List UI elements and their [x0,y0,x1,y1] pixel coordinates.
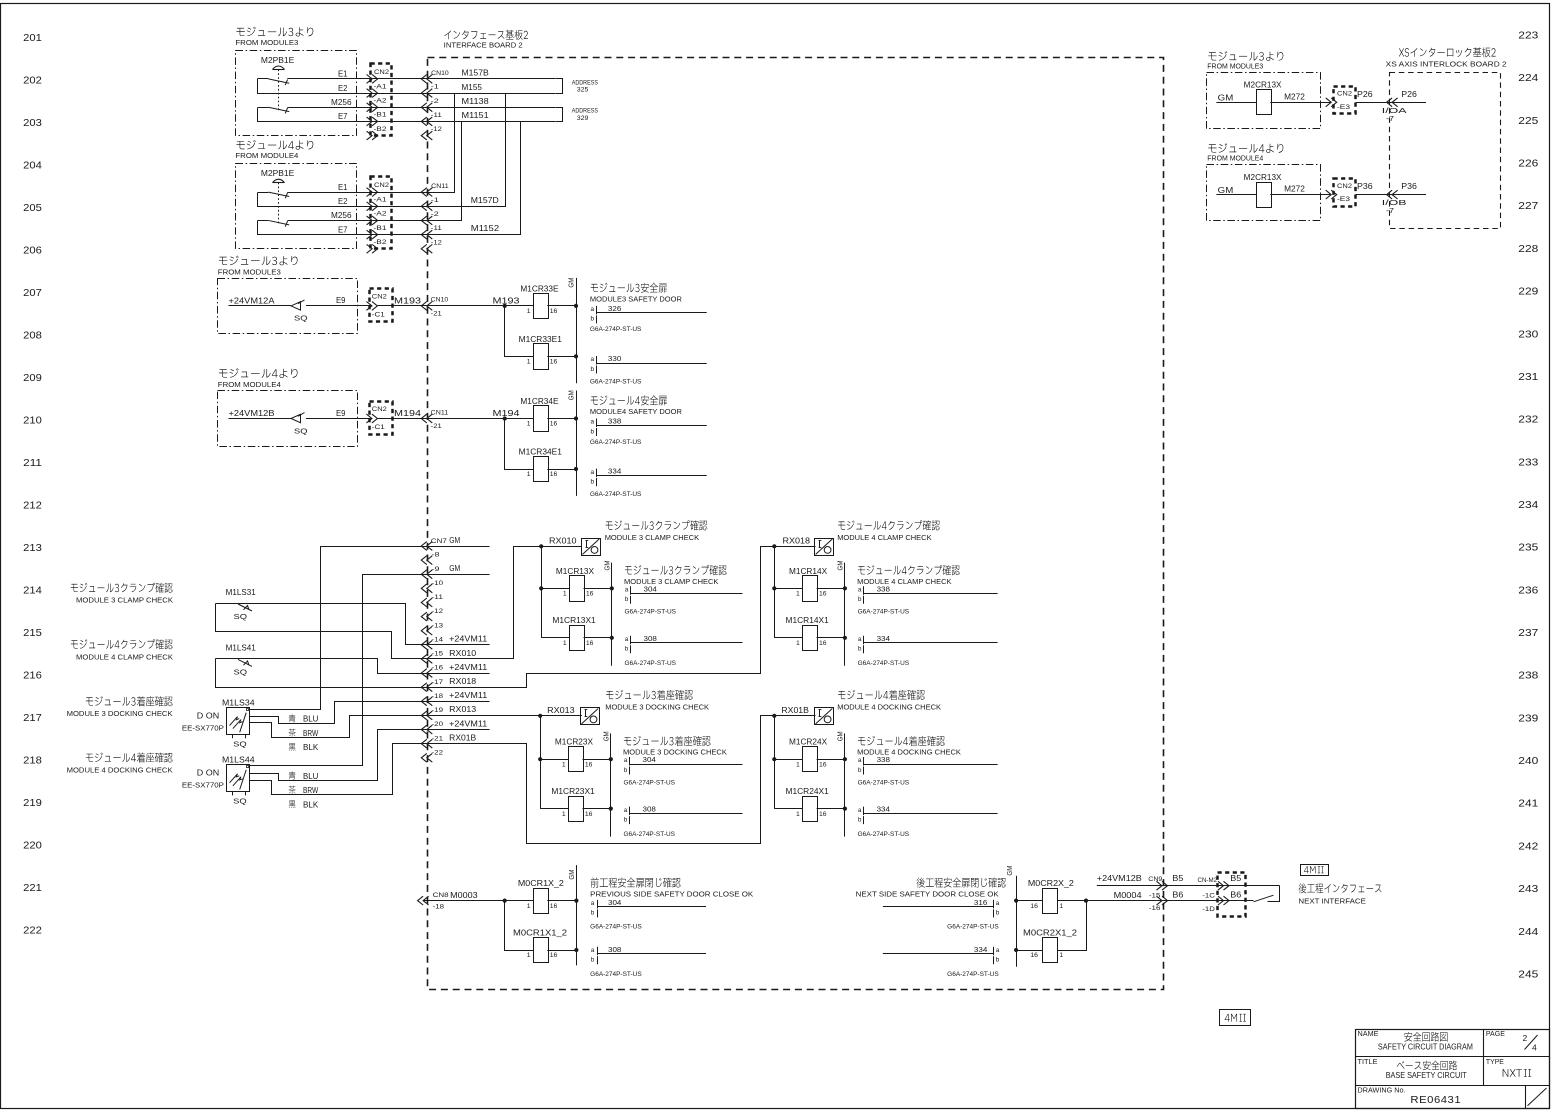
wire E9 (door4) [306,418,372,420]
svg-text:+24VM11: +24VM11 [449,635,488,644]
svg-text:M0CR1X_2: M0CR1X_2 [518,879,565,888]
label page slash [1525,1035,1538,1050]
CN11 chevrons (door4) [421,414,427,423]
svg-text:-2: -2 [431,98,439,105]
label モジュール4より (JP) (door4) [219,368,298,378]
GM bus (door3) [576,278,578,383]
svg-text:B6: B6 [1172,890,1184,899]
svg-text:RX010: RX010 [449,649,477,658]
svg-text:M1CR23X1: M1CR23X1 [551,787,595,796]
svg-text:226: 226 [1518,158,1538,170]
svg-text:a: a [624,757,628,764]
svg-text:a: a [624,807,628,814]
svg-text:+24VM11: +24VM11 [449,663,488,672]
svg-text:a: a [996,900,1000,907]
svg-text:-E3: -E3 [1337,104,1350,111]
svg-text:G6A-274P-ST-US: G6A-274P-ST-US [624,831,676,838]
svg-text:BRW: BRW [303,786,319,795]
relay coil M2CR13X (right m3) [1257,90,1272,115]
svg-text:RX01B: RX01B [449,733,476,742]
label safety circuit diagram (JP) [1404,1032,1447,1042]
svg-text:M1CR13X: M1CR13X [556,567,595,576]
label BLU 44 (JP) [289,771,296,779]
svg-text:b: b [591,366,595,373]
wire M0003 [423,900,533,902]
label モジュール3より (JP) (module3 top) [236,27,313,37]
svg-text:SQ: SQ [294,314,308,323]
svg-text:G6A-274P-ST-US: G6A-274P-ST-US [625,609,677,616]
svg-text:G6A-274P-ST-US: G6A-274P-ST-US [590,491,642,498]
svg-text:219: 219 [23,797,42,809]
CN2 chevrons (module4 top) [367,244,373,253]
wire M193 harness (door3) [377,305,505,307]
svg-text:1: 1 [527,903,531,910]
svg-text:1: 1 [527,308,531,315]
svg-text:M256: M256 [331,98,352,107]
svg-text:228: 228 [1518,243,1538,255]
svg-text:M2CR13X: M2CR13X [1244,81,1282,90]
svg-text:-B2: -B2 [374,126,387,133]
wire to M1CR23X [540,759,568,761]
svg-text:316: 316 [974,898,987,907]
svg-text:-B2: -B2 [374,239,387,246]
wire to relay M1CR34E (door4) [505,418,533,420]
label docking4 section (JP) [838,690,925,700]
svg-text:M1138: M1138 [462,97,490,106]
svg-text:334: 334 [877,805,890,814]
wire CN11-1 to M155 row [428,94,455,193]
node RX018 junction [772,544,776,548]
svg-text:240: 240 [1518,755,1538,767]
svg-text:M1LS31: M1LS31 [226,588,257,597]
svg-text:16: 16 [585,761,593,768]
wire to M1CR24X1 [774,808,802,810]
contact blade (module3 top) [258,107,269,109]
svg-text:+24VM12B: +24VM12B [229,409,275,418]
wire M157D [428,94,506,207]
CN2 chevrons (module3 top) [367,117,373,126]
svg-text:GM: GM [838,731,845,741]
wire M1152 [428,122,521,235]
svg-text:MODULE 4 CLAMP CHECK: MODULE 4 CLAMP CHECK [857,577,951,586]
svg-text:-19: -19 [432,707,444,714]
switch M1LS31 blade [238,604,252,611]
GM bus left block [576,865,578,965]
svg-text:SAFETY CIRCUIT DIAGRAM: SAFETY CIRCUIT DIAGRAM [1378,1043,1473,1052]
wire to M1CR24X [774,759,802,761]
next interface switch blade [1254,895,1274,902]
node M193 junction (door3) [503,304,507,308]
XS axis interlock board 2 dashed outline [1390,73,1501,229]
connector CN2 heavy dashed box (door3) [370,289,393,322]
XS board chevrons (right m4) [1387,190,1393,199]
wire RX018 feed [428,547,816,688]
label BRW 34 (JP) [289,729,296,737]
wire M1LS31 top to pin -14 [216,604,428,645]
svg-text:-21: -21 [431,311,442,318]
connector CN7 pin -11 chevrons [421,598,427,607]
svg-text:B5: B5 [1230,874,1242,883]
svg-text:M2PB1E: M2PB1E [261,169,294,178]
relay coil M1CR33E1 (door3) [534,344,549,370]
output wire 316 (next) [883,906,994,908]
wire M1LS44 BLU to pin -20 [250,730,428,781]
svg-text:16: 16 [819,811,827,818]
svg-text:a: a [591,306,595,313]
label clamp4 section (JP) [838,520,940,530]
wire RX01B feed [428,716,816,844]
svg-text:1: 1 [796,640,800,647]
svg-text:RX018: RX018 [783,537,811,546]
connector CN2 heavy dashed box (right m3) [1334,87,1356,114]
wire M1LS41 top to pin -16 [216,659,428,674]
svg-text:338: 338 [877,584,890,593]
svg-text:EE-SX770P: EE-SX770P [182,723,224,732]
GM bus [844,733,846,836]
connector CN7 pin CN7 chevrons [421,542,427,551]
connector CN7 pin -20 chevrons [421,725,427,734]
svg-text:204: 204 [23,160,42,172]
svg-text:-9: -9 [432,566,440,573]
wire M1CR13X to bus [584,588,612,590]
svg-text:-A1: -A1 [374,197,387,204]
svg-text:1: 1 [796,591,800,598]
svg-text:-B1: -B1 [374,225,387,232]
wire GM stub -9 [427,574,490,576]
svg-text:MODULE 3 CLAMP CHECK: MODULE 3 CLAMP CHECK [76,596,173,605]
svg-text:16: 16 [550,421,558,428]
svg-text:16: 16 [550,359,558,366]
svg-text:338: 338 [877,755,890,764]
svg-text:SQ: SQ [233,797,247,806]
label モジュール3より (JP) (door3) [219,256,298,266]
svg-text:217: 217 [23,712,42,724]
svg-text:E1: E1 [338,70,348,79]
svg-text:G6A-274P-ST-US: G6A-274P-ST-US [858,831,910,838]
node M194 junction (door4) [503,416,507,420]
node RX01B junction [772,714,776,718]
svg-text:M155: M155 [462,83,483,92]
svg-text:FROM MODULE4: FROM MODULE4 [235,151,298,160]
svg-text:a: a [591,356,595,363]
svg-text:G6A-274P-ST-US: G6A-274P-ST-US [947,924,999,931]
CN11 chevrons (module4 top) [421,188,427,197]
pushbutton actuator (module3 top) [273,66,285,69]
svg-text:RX018: RX018 [449,677,477,686]
svg-text:308: 308 [608,945,621,954]
svg-text:209: 209 [23,372,42,384]
svg-text:202: 202 [23,75,42,87]
svg-text:GM: GM [604,731,611,741]
signal RX018 I/O box [815,539,834,556]
svg-text:FROM MODULE4: FROM MODULE4 [1207,154,1263,163]
ADDRESS 325 bracket [556,79,563,94]
svg-text:CN11: CN11 [431,183,449,190]
svg-text:FROM MODULE4: FROM MODULE4 [218,380,281,389]
svg-text:b: b [858,767,862,774]
svg-text:206: 206 [23,245,42,257]
svg-text:CN2: CN2 [1337,183,1352,190]
wire to M1CR13X [541,588,569,590]
connector CN7 pin -17 chevrons [421,683,427,692]
wire loop (module4 top) [258,221,428,235]
CN10 chevrons (module3 top) [421,131,427,140]
label BLU 34 (JP) [289,714,296,722]
svg-text:b: b [625,596,629,603]
svg-text:203: 203 [23,117,42,129]
svg-text:212: 212 [23,500,42,512]
wire +24VM11 stub -20 [427,729,490,731]
svg-text:M1LS44: M1LS44 [222,756,255,765]
svg-text:-E3: -E3 [1337,196,1350,203]
wire M1LS44 BRW to pin -21 [250,744,428,795]
svg-text:G6A-274P-ST-US: G6A-274P-ST-US [858,609,910,616]
svg-text:244: 244 [1518,926,1538,938]
svg-text:-12: -12 [432,608,444,615]
svg-text:MODULE 3 DOCKING CHECK: MODULE 3 DOCKING CHECK [623,748,727,757]
svg-text:-2: -2 [431,211,439,218]
svg-text:B6: B6 [1230,890,1242,899]
svg-text:PAGE: PAGE [1486,1029,1505,1038]
label module 4 docking check (JP) [86,753,173,763]
svg-text:MODULE 4 CLAMP CHECK: MODULE 4 CLAMP CHECK [76,652,173,661]
wire GM to coil (right m4) [1216,194,1256,196]
svg-text:b: b [624,816,628,823]
svg-text:GM: GM [449,536,460,545]
svg-text:a: a [858,807,862,814]
node RX010 junction [539,544,543,548]
CN11 chevrons (module4 top) [421,244,427,253]
connector CN-M2 heavy dashed box [1218,873,1246,917]
svg-text:1: 1 [527,421,531,428]
wire from +24VM12A (door3) [229,305,292,307]
label NXT II [1503,1069,1531,1077]
svg-text:215: 215 [23,627,42,639]
svg-text:16: 16 [550,903,558,910]
wire CN11-2 to M1151 row [428,122,462,221]
svg-text:FROM MODULE3: FROM MODULE3 [218,268,281,277]
svg-text:243: 243 [1518,883,1538,895]
label module3 right (JP) [1208,51,1283,61]
wire coil2 to bus (door4) [547,469,576,471]
svg-text:GM: GM [569,277,576,287]
svg-text:b: b [591,910,595,917]
sensor legs + SQ [232,734,234,738]
svg-text:GM: GM [838,560,845,570]
CN2 chevrons (module3 top) [367,131,373,140]
wire M1CR23X to bus [583,759,611,761]
svg-text:-16: -16 [1149,905,1161,912]
svg-text:SQ: SQ [294,426,308,435]
wire coil to bus (door3) [547,305,576,307]
svg-text:-12: -12 [431,239,442,246]
label clamp4 annotation (JP) [858,565,960,575]
wire +24VM11 stub -18 [427,701,490,703]
svg-text:-11: -11 [432,594,444,601]
svg-text:RX013: RX013 [449,705,477,714]
svg-text:M1CR14X: M1CR14X [789,567,828,576]
svg-text:-1: -1 [431,84,439,91]
vertical to second relay (door4) [505,419,534,470]
wire M1LS31 bottom to pin -15 [216,604,428,659]
svg-text:4: 4 [1532,1043,1537,1053]
CN11 chevrons (module4 top) [421,230,427,239]
svg-text:-1C: -1C [1202,892,1215,899]
svg-text:M1CR14X1: M1CR14X1 [786,616,830,625]
svg-text:-15: -15 [432,651,444,658]
svg-text:M0CR2X1_2: M0CR2X1_2 [1023,928,1078,937]
wire M256 (module4 top) [287,220,427,222]
relay coil M1CR24X [803,747,818,772]
label module 3 docking check (JP) [86,696,173,706]
wire to M1CR23X1 [540,808,568,810]
svg-text:207: 207 [23,287,42,299]
svg-text:CN11: CN11 [431,409,449,416]
CN10 chevrons (module3 top) [421,103,427,112]
wire to M1CR14X [774,588,802,590]
svg-text:-8: -8 [432,552,440,559]
label BLK 34 (JP) [289,743,296,751]
svg-text:M1CR33E1: M1CR33E1 [519,335,563,344]
label interface board 2 (JP) [444,30,528,40]
svg-text:-11: -11 [431,225,442,232]
svg-text:M193: M193 [493,297,521,306]
wire from +24VM12B (door4) [229,418,292,420]
svg-text:-20: -20 [432,721,444,728]
wire E1 (module4 top) [287,192,427,194]
svg-text:a: a [591,419,595,426]
svg-text:1: 1 [796,761,800,768]
relay coil M1CR13X1 [570,626,585,651]
svg-text:B5: B5 [1172,874,1184,883]
svg-text:224: 224 [1518,72,1538,84]
wire to M1CR14X1 [774,637,802,639]
wire M1CR24X1 to bus [817,808,845,810]
svg-text:P36: P36 [1401,182,1417,191]
svg-text:M193: M193 [394,297,422,306]
svg-text:CN7: CN7 [431,538,447,545]
svg-text:M1CR23X: M1CR23X [555,738,594,747]
svg-text:E2: E2 [338,84,348,93]
svg-text:a: a [625,636,629,643]
svg-text:M0003: M0003 [450,891,478,900]
svg-text:E2: E2 [338,197,348,206]
svg-text:M194: M194 [493,409,521,418]
svg-text:238: 238 [1518,670,1538,682]
wire +24VM12B B5 [1097,885,1280,887]
svg-text:+24VM12B: +24VM12B [1097,874,1142,883]
svg-text:BRW: BRW [303,729,319,738]
GM bus [844,563,846,666]
svg-text:216: 216 [23,670,42,682]
svg-text:235: 235 [1518,542,1538,554]
label XS interlock board (JP) [1399,47,1496,57]
svg-text:TYPE: TYPE [1486,1057,1504,1066]
connector CN7 pin -19 chevrons [421,711,427,720]
connector CN2 heavy dashed box (module3 top) [371,64,392,136]
svg-text:+24VM12A: +24VM12A [229,296,276,305]
svg-text:CN2: CN2 [372,406,387,413]
svg-text:245: 245 [1518,968,1538,980]
CN2 chevrons (module4 top) [367,188,373,197]
svg-text:MODULE4 SAFETY DOOR: MODULE4 SAFETY DOOR [590,407,683,416]
signal RX010 I/O box [582,539,601,556]
svg-text:2: 2 [1523,1033,1528,1043]
wire coil2 to GM bus [547,950,576,952]
svg-text:+24VM11: +24VM11 [449,691,488,700]
svg-text:NEXT INTERFACE: NEXT INTERFACE [1298,897,1366,906]
sensor M1LS44 box [227,765,250,792]
connector CN7 pin -9 chevrons [421,570,427,579]
wire M1LS44 GM to pin -9 [250,575,428,766]
connector CN-M2 chevrons B6 [1218,896,1224,905]
label docking3 annotation (JP) [624,736,711,746]
svg-text:-21: -21 [432,735,444,742]
svg-text:-18: -18 [433,904,445,911]
contact blade (module4 top) [258,220,269,222]
label clamp3 section (JP) [606,520,708,530]
svg-text:229: 229 [1518,286,1538,298]
title block diagonal [1528,1088,1547,1106]
relay coil M1CR14X [803,576,818,602]
label docking3 section (JP) [606,690,693,700]
svg-text:232: 232 [1518,414,1538,426]
signal RX01B I/O box [815,708,834,725]
svg-text:M194: M194 [394,409,422,418]
wire harness P36 (right m4) [1356,194,1426,196]
wire coil to GM bus [547,900,576,902]
svg-text:RX010: RX010 [549,537,577,546]
svg-text:P36: P36 [1357,182,1373,191]
svg-text:1: 1 [527,471,531,478]
wire loop (module3 top) [258,79,428,94]
label previous door annotation (JP) [591,878,681,888]
XS board chevrons (right m3) [1387,98,1393,107]
wire coil to bus (door4) [547,418,576,420]
svg-text:16: 16 [586,591,594,598]
wire M1LS34 BRW to pin -19 [250,716,428,738]
title block column divider [1483,1029,1485,1085]
relay coil M0CR2X1_2 [1043,938,1058,963]
svg-text:-1D: -1D [1202,906,1215,913]
svg-text:16: 16 [819,591,827,598]
label 4MII box top [1301,865,1329,876]
relay coil M1CR13X [570,576,585,602]
svg-text:MODULE 4 DOCKING CHECK: MODULE 4 DOCKING CHECK [67,766,173,775]
connector CN9 chevrons B6 [1157,896,1163,905]
label モジュール4より (JP) (module4 top) [236,140,313,150]
wire loop (module4 top) [258,193,428,207]
svg-text:G6A-274P-ST-US: G6A-274P-ST-US [624,780,676,787]
svg-text:CN10: CN10 [431,297,449,304]
label module4 right (JP) [1208,143,1283,153]
relay coil M0CR2X_2 [1043,889,1058,914]
CN2 chevrons (right m4) [1326,190,1332,199]
svg-text:208: 208 [23,330,42,342]
svg-text:TITLE: TITLE [1358,1057,1378,1066]
wire M256 (module3 top) [287,107,427,109]
svg-text:227: 227 [1518,200,1538,212]
svg-text:MODULE 4 DOCKING CHECK: MODULE 4 DOCKING CHECK [837,703,941,712]
svg-text:234: 234 [1518,499,1538,511]
svg-text:a: a [591,469,595,476]
svg-text:+24VM11: +24VM11 [449,719,488,728]
svg-text:225: 225 [1518,115,1538,127]
output wire 334 (next) [883,953,994,955]
svg-text:-17: -17 [432,679,444,686]
svg-text:-A2: -A2 [374,211,387,218]
svg-text:GM: GM [1218,94,1234,103]
